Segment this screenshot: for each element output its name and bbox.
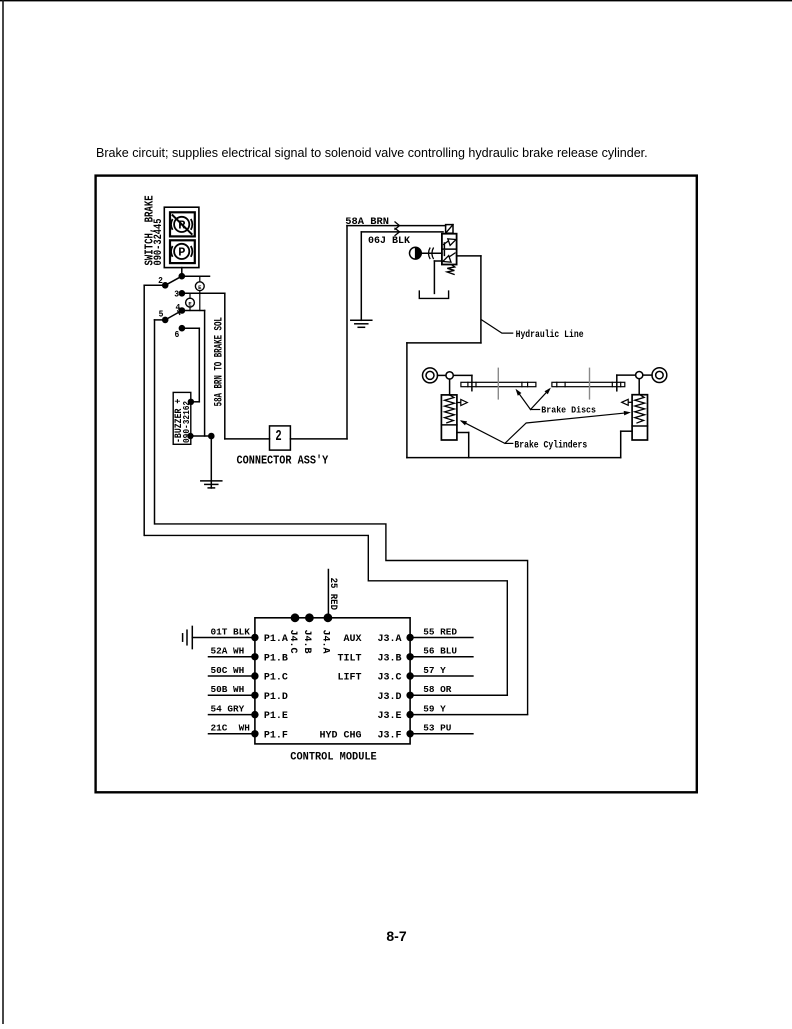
svg-text:2: 2 xyxy=(275,427,281,444)
svg-text:3: 3 xyxy=(174,289,179,300)
svg-text:55 RED: 55 RED xyxy=(423,626,457,637)
svg-text:CONNECTOR ASS'Y: CONNECTOR ASS'Y xyxy=(237,455,329,468)
svg-text:58A BRN: 58A BRN xyxy=(345,216,389,228)
svg-text:56 BLU: 56 BLU xyxy=(423,646,457,657)
svg-text:J4.B: J4.B xyxy=(301,630,312,654)
svg-text:P1.B: P1.B xyxy=(264,653,288,664)
svg-text:Brake Cylinders: Brake Cylinders xyxy=(514,439,587,451)
svg-text:53 PU: 53 PU xyxy=(423,723,452,734)
svg-text:P: P xyxy=(178,246,185,260)
svg-text:54 GRY: 54 GRY xyxy=(211,704,245,715)
svg-text:Hydraulic Line: Hydraulic Line xyxy=(516,328,584,340)
svg-text:5: 5 xyxy=(159,309,164,320)
svg-text:59 Y: 59 Y xyxy=(423,704,446,715)
svg-text:8-7: 8-7 xyxy=(386,928,406,944)
svg-text:58 OR: 58 OR xyxy=(423,684,452,695)
svg-text:AUX: AUX xyxy=(343,634,361,645)
svg-text:TILT: TILT xyxy=(337,653,361,664)
svg-text:58A BRN TO BRAKE SOL: 58A BRN TO BRAKE SOL xyxy=(212,317,225,407)
svg-text:21C WH: 21C WH xyxy=(211,723,250,734)
svg-text:CONTROL MODULE: CONTROL MODULE xyxy=(290,752,376,764)
svg-text:52A WH: 52A WH xyxy=(211,646,245,657)
svg-text:P1.E: P1.E xyxy=(264,711,288,722)
svg-text:J3.C: J3.C xyxy=(377,673,401,684)
svg-text:P1.D: P1.D xyxy=(264,692,288,703)
svg-text:J3.D: J3.D xyxy=(377,692,401,703)
svg-text:J3.B: J3.B xyxy=(377,653,401,664)
svg-text:P1.F: P1.F xyxy=(264,730,288,741)
svg-text:HYD CHG: HYD CHG xyxy=(319,730,361,741)
svg-text:50C WH: 50C WH xyxy=(211,665,245,676)
svg-text:P1.C: P1.C xyxy=(264,673,288,684)
svg-text:J3.E: J3.E xyxy=(377,711,401,722)
svg-text:01T BLK: 01T BLK xyxy=(211,626,251,637)
svg-text:06J BLK: 06J BLK xyxy=(368,236,410,247)
svg-text:J4.A: J4.A xyxy=(320,630,331,654)
svg-text:LIFT: LIFT xyxy=(337,673,361,684)
svg-text:50B WH: 50B WH xyxy=(211,684,245,695)
svg-text:25 RED: 25 RED xyxy=(328,578,340,611)
svg-text:Brake Discs: Brake Discs xyxy=(541,405,596,416)
svg-text:Brake circuit; supplies electr: Brake circuit; supplies electrical signa… xyxy=(96,146,648,160)
svg-text:J4.C: J4.C xyxy=(287,630,298,654)
svg-text:6: 6 xyxy=(175,329,180,340)
svg-text:57 Y: 57 Y xyxy=(423,665,446,676)
svg-text:P1.A: P1.A xyxy=(264,634,288,645)
svg-text:J3.A: J3.A xyxy=(377,634,401,645)
svg-text:J3.F: J3.F xyxy=(377,730,401,741)
